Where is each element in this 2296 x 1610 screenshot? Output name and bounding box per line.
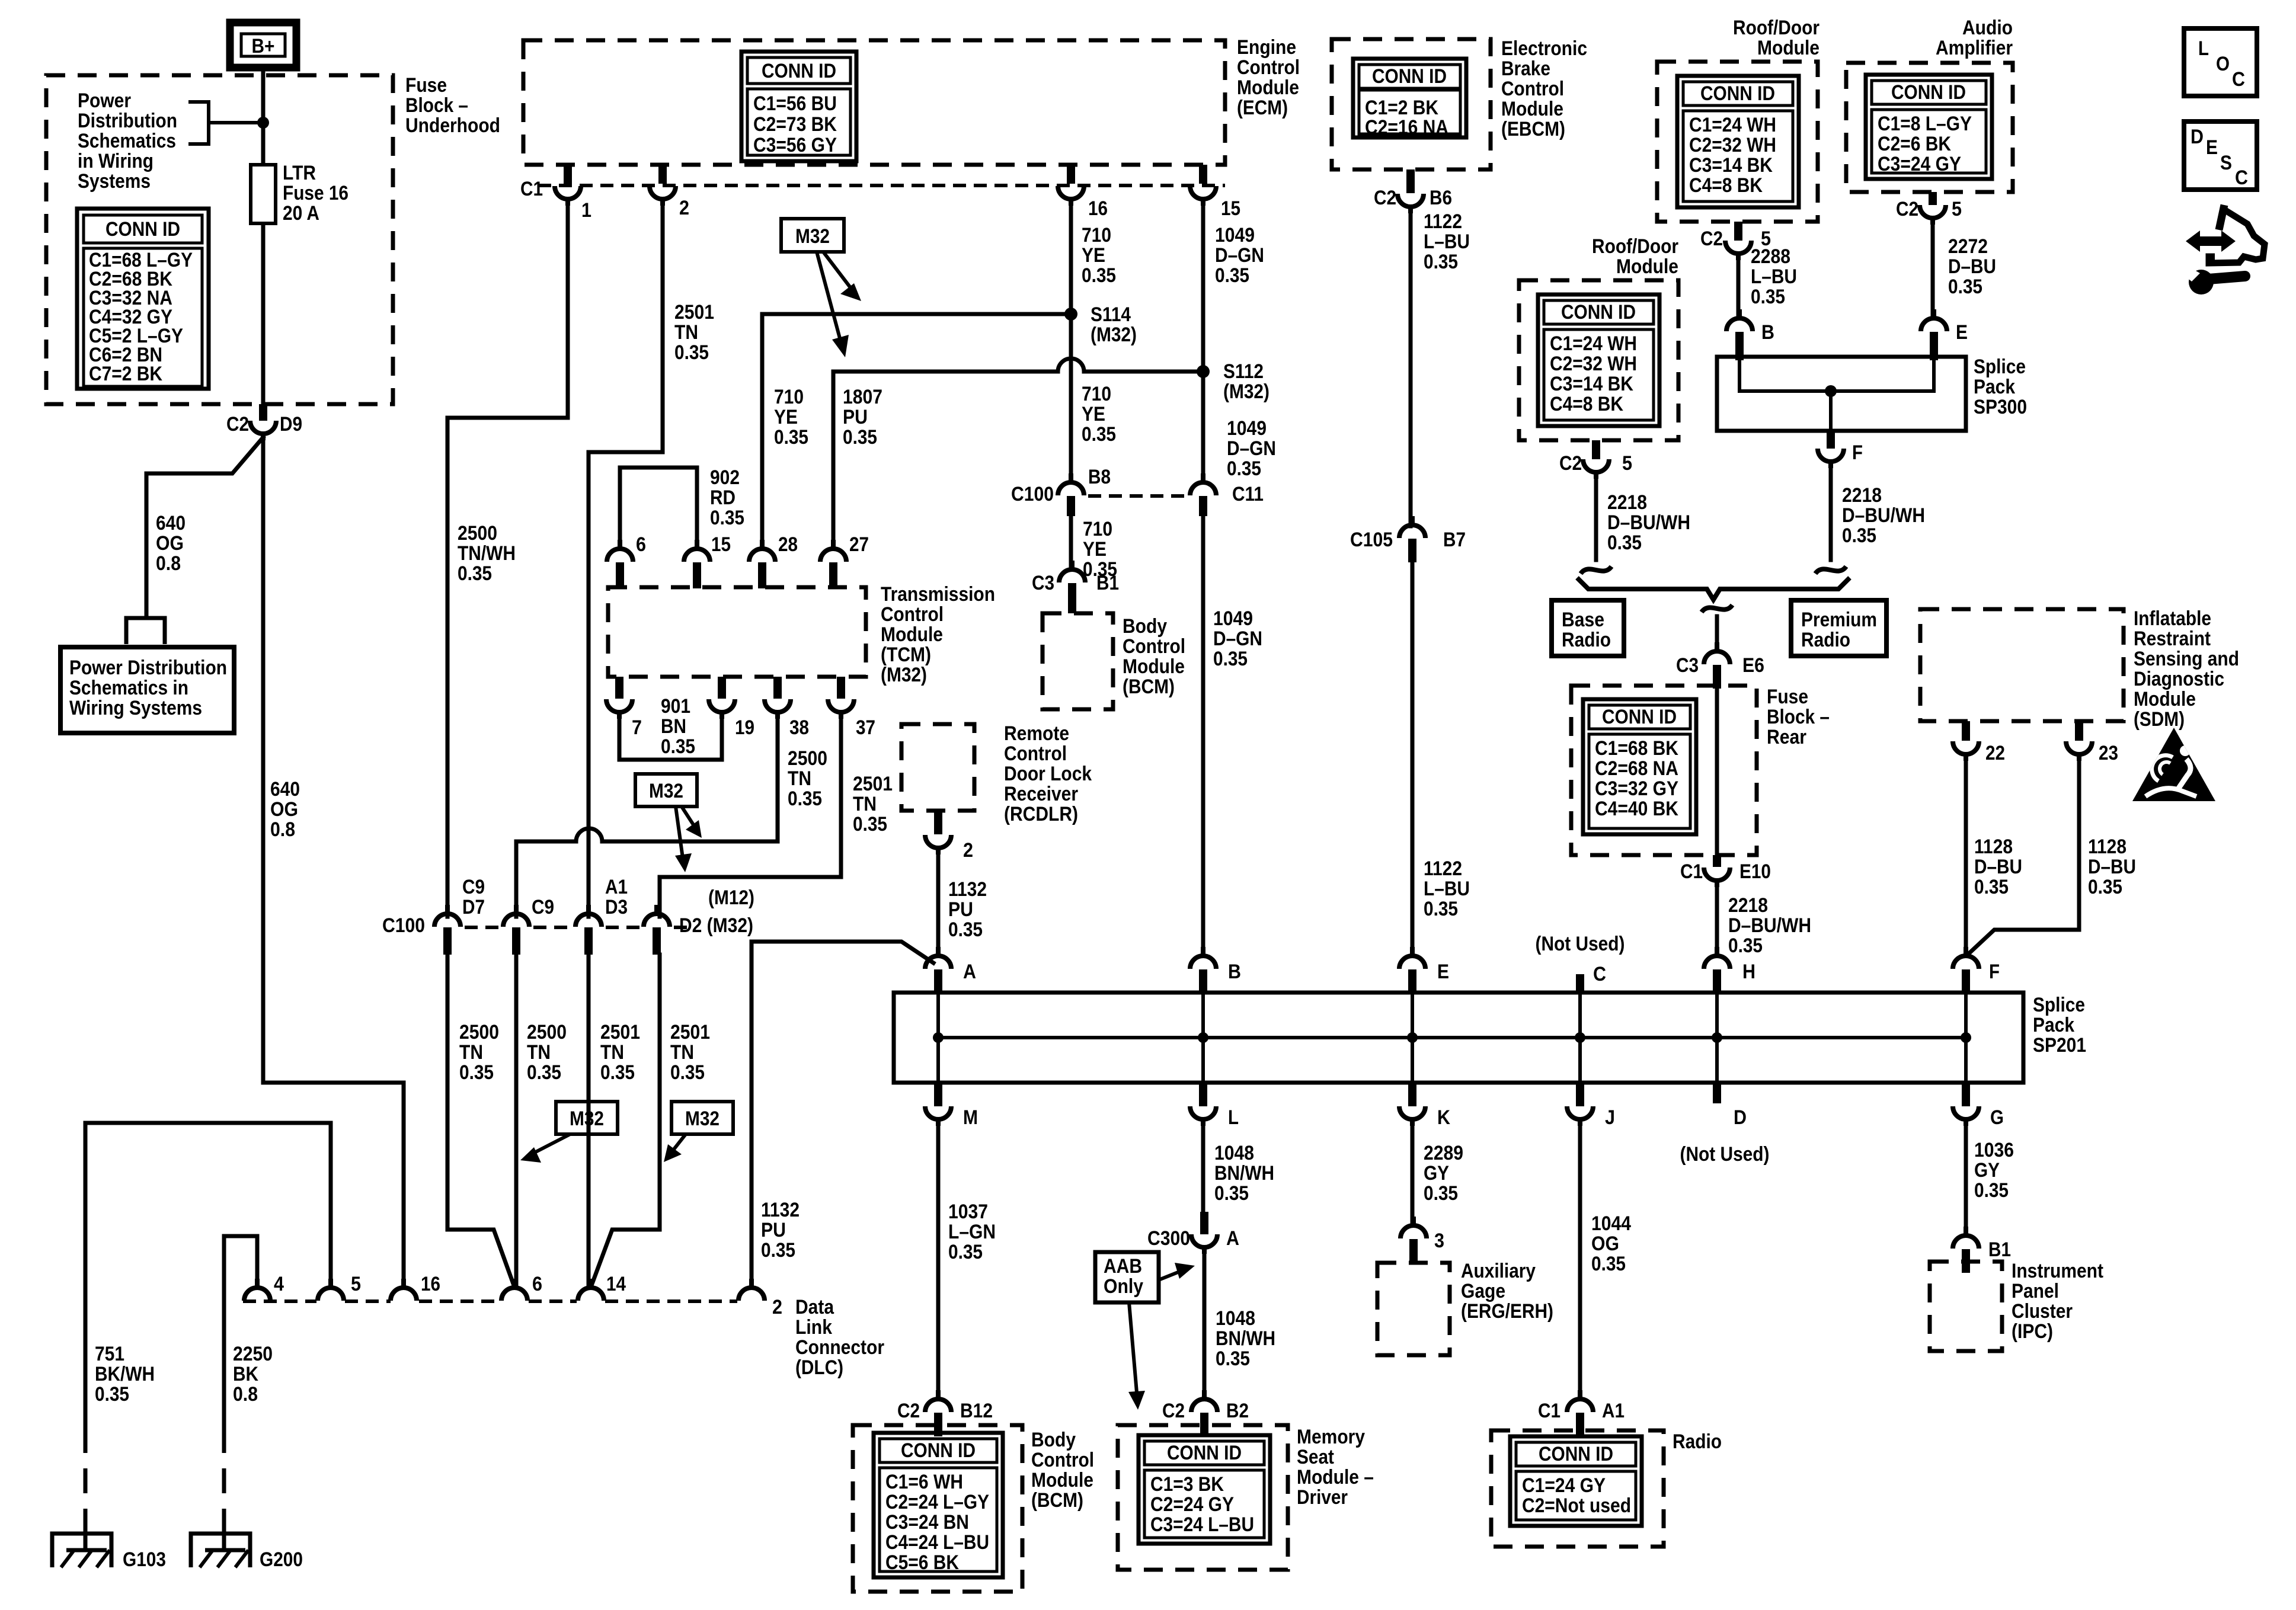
svg-text:D–BU/WH: D–BU/WH — [1607, 511, 1690, 534]
svg-text:TN: TN — [600, 1041, 624, 1064]
EBCM pin C2 B6 — [1406, 169, 1415, 193]
svg-text:C2: C2 — [1162, 1400, 1185, 1422]
svg-text:D–BU/WH: D–BU/WH — [1842, 504, 1925, 527]
svg-text:D3: D3 — [605, 896, 628, 918]
svg-text:Splice: Splice — [1974, 356, 2026, 378]
roof/door lower pin C2 5 — [1592, 440, 1600, 459]
svg-text:M32: M32 — [649, 780, 683, 802]
svg-text:TN/WH: TN/WH — [458, 542, 516, 565]
svg-text:0.35: 0.35 — [458, 562, 492, 585]
svg-text:BN/WH: BN/WH — [1216, 1327, 1275, 1350]
SP201 column H-D — [1715, 993, 1719, 1083]
svg-text:Schematics in: Schematics in — [69, 677, 188, 699]
svg-text:BN/WH: BN/WH — [1214, 1162, 1274, 1185]
wire 2218 D-BU/WH E10 to SP201 H — [1715, 885, 1719, 955]
svg-text:BK: BK — [233, 1363, 258, 1385]
svg-text:M32: M32 — [795, 225, 830, 248]
SP300 internal bus — [1739, 360, 1934, 431]
svg-text:2250: 2250 — [233, 1343, 273, 1365]
svg-text:(M32): (M32) — [881, 664, 927, 686]
svg-text:CONN ID: CONN ID — [1891, 81, 1966, 104]
svg-text:TN: TN — [674, 321, 698, 344]
svg-text:Pack: Pack — [2033, 1014, 2074, 1036]
svg-text:C2=68 NA: C2=68 NA — [1595, 757, 1678, 780]
svg-text:TN: TN — [670, 1041, 694, 1064]
svg-text:C1=56 BU: C1=56 BU — [753, 92, 837, 115]
svg-text:38: 38 — [789, 716, 809, 739]
svg-text:C1=24 GY: C1=24 GY — [1522, 1474, 1606, 1497]
svg-text:2218: 2218 — [1607, 491, 1647, 514]
M32 arrow to 2501 wire — [675, 806, 692, 872]
svg-text:C1: C1 — [520, 178, 543, 200]
DLC pin 4 — [244, 1279, 270, 1301]
wire 901 BN TCM 7 to TCM 19 — [619, 717, 722, 760]
svg-text:K: K — [1437, 1106, 1450, 1129]
svg-text:C3=24 L–BU: C3=24 L–BU — [1150, 1513, 1254, 1536]
svg-text:Control: Control — [1004, 742, 1067, 765]
svg-text:0.35: 0.35 — [1424, 251, 1458, 273]
audio amp pin C2 5 — [1929, 192, 1937, 205]
svg-text:M: M — [963, 1106, 978, 1129]
connector C100 D7 — [434, 905, 461, 927]
svg-text:C7=2 BK: C7=2 BK — [89, 363, 162, 385]
wire 2501 TN TCM 37 to C100 D2 — [660, 717, 841, 917]
wire 1049 D-GN C11 to SP201 B — [1201, 516, 1205, 955]
svg-text:Module: Module — [1123, 655, 1185, 678]
svg-text:0.35: 0.35 — [674, 341, 709, 364]
svg-text:0.35: 0.35 — [853, 813, 887, 836]
CONN ID table (radio) — [1510, 1436, 1642, 1526]
svg-text:1807: 1807 — [843, 386, 882, 408]
svg-text:28: 28 — [778, 533, 798, 556]
svg-text:Memory: Memory — [1297, 1426, 1365, 1448]
svg-text:C2: C2 — [1559, 452, 1582, 475]
svg-text:Module: Module — [1501, 98, 1563, 120]
svg-text:C100: C100 — [382, 914, 425, 937]
svg-text:15: 15 — [1221, 197, 1240, 220]
svg-text:16: 16 — [421, 1273, 440, 1295]
wire 1049 D-GN S112 to C11 — [1201, 372, 1205, 482]
svg-text:1036: 1036 — [1974, 1139, 2014, 1161]
svg-text:Panel: Panel — [2012, 1280, 2059, 1302]
svg-text:Splice: Splice — [2033, 994, 2085, 1016]
wire 640 OG to DLC 16 — [263, 437, 404, 1287]
svg-text:Receiver: Receiver — [1004, 783, 1078, 805]
svg-text:(SDM): (SDM) — [2134, 708, 2185, 731]
svg-text:G: G — [1990, 1106, 2004, 1129]
M32 arrow to S114 wire — [823, 252, 861, 301]
svg-text:0.35: 0.35 — [788, 788, 822, 810]
svg-text:5: 5 — [1952, 198, 1962, 220]
svg-text:1132: 1132 — [948, 878, 987, 901]
svg-text:CONN ID: CONN ID — [762, 60, 836, 82]
SDM pin 22 — [1962, 721, 1970, 741]
svg-text:A: A — [1226, 1227, 1239, 1250]
connector C2 B12 — [925, 1390, 951, 1412]
wire 1049 D-GN ECM 15 to S112 — [1201, 204, 1205, 372]
TCM pin 27 — [820, 540, 846, 562]
RCDLR pin 2 — [934, 811, 942, 834]
svg-text:0.35: 0.35 — [1216, 1347, 1250, 1370]
ground G103 — [52, 1534, 111, 1567]
svg-text:S: S — [2220, 152, 2232, 174]
svg-text:Body: Body — [1123, 615, 1167, 638]
connector C3 B1 — [1059, 561, 1085, 582]
svg-text:2501: 2501 — [670, 1021, 710, 1044]
wire 2501 TN C100 D3 to DLC 14 — [587, 955, 591, 1287]
ECM pin 2 — [658, 165, 667, 184]
svg-text:0.35: 0.35 — [661, 735, 695, 758]
svg-text:0.35: 0.35 — [948, 918, 983, 941]
svg-text:Block –: Block – — [1767, 706, 1830, 728]
svg-text:C1=24 WH: C1=24 WH — [1550, 332, 1637, 355]
svg-text:2272: 2272 — [1948, 235, 1988, 258]
svg-text:2218: 2218 — [1728, 894, 1768, 917]
SP201 pin B — [1190, 947, 1216, 969]
svg-text:Data: Data — [795, 1296, 834, 1318]
svg-text:640: 640 — [156, 512, 186, 534]
svg-text:C1=3 BK: C1=3 BK — [1150, 1473, 1224, 1496]
wire 2500 TN/WH ECM 1 to C100 D7 — [447, 204, 568, 917]
svg-text:2: 2 — [963, 839, 973, 862]
svg-text:C105: C105 — [1350, 529, 1393, 551]
svg-text:1044: 1044 — [1591, 1212, 1631, 1235]
svg-text:CONN ID: CONN ID — [1539, 1443, 1613, 1465]
wire 710 YE S114 to C100 B8 — [1069, 314, 1073, 482]
svg-text:E: E — [1437, 961, 1449, 983]
svg-text:1049: 1049 — [1227, 417, 1267, 440]
svg-text:0.35: 0.35 — [774, 426, 808, 449]
wire 1128 D-BU SDM 23 to SP201 F — [1968, 759, 2079, 954]
DLC pin 16 — [391, 1279, 417, 1301]
svg-text:in Wiring: in Wiring — [78, 150, 154, 172]
M32 arrow to 2501 wire — [664, 1134, 686, 1162]
svg-text:PU: PU — [761, 1219, 786, 1241]
svg-text:G200: G200 — [260, 1548, 303, 1571]
svg-text:2501: 2501 — [853, 773, 893, 795]
svg-text:(BCM): (BCM) — [1123, 676, 1175, 698]
svg-text:CONN ID: CONN ID — [1372, 65, 1447, 88]
svg-text:BN: BN — [661, 715, 686, 738]
DLC pin 2 — [738, 1279, 765, 1301]
svg-text:7: 7 — [632, 716, 642, 739]
svg-text:0.35: 0.35 — [670, 1061, 705, 1084]
svg-text:TN: TN — [853, 793, 877, 815]
svg-text:B2: B2 — [1226, 1400, 1249, 1422]
M32 callout (left DLC) — [556, 1102, 618, 1134]
svg-text:CONN ID: CONN ID — [1602, 706, 1677, 728]
svg-text:B1: B1 — [1096, 572, 1119, 594]
svg-text:C4=24 L–BU: C4=24 L–BU — [885, 1531, 989, 1554]
svg-text:CONN ID: CONN ID — [105, 218, 180, 241]
svg-text:Brake: Brake — [1501, 57, 1550, 80]
SP300 pin F — [1827, 431, 1835, 449]
svg-text:YE: YE — [1082, 403, 1105, 425]
splice pack SP201 box — [894, 993, 2023, 1083]
wire 1048 BN/WH L to C300 A — [1201, 1124, 1205, 1212]
svg-text:PU: PU — [843, 406, 868, 428]
M32 arrow to 2500 wire — [520, 1134, 570, 1163]
CONN ID table (fuse block underhood) — [77, 209, 209, 389]
SP201 pin M — [934, 1083, 942, 1106]
svg-text:CONN ID: CONN ID — [1561, 301, 1636, 324]
svg-text:L: L — [2198, 37, 2209, 60]
svg-text:Engine: Engine — [1237, 36, 1296, 59]
airbag caution icon — [2132, 728, 2215, 801]
connector C2 B2 — [1191, 1390, 1217, 1412]
splice S112 — [1197, 365, 1210, 378]
svg-text:B8: B8 — [1088, 466, 1111, 488]
svg-text:H: H — [1742, 961, 1755, 983]
svg-text:710: 710 — [1083, 518, 1112, 540]
inflatable restraint SDM dashed box — [1920, 609, 2124, 721]
svg-text:Premium: Premium — [1801, 609, 1877, 631]
wire through fuse block rear E6 to E10 — [1715, 689, 1719, 855]
svg-text:S114: S114 — [1091, 303, 1131, 326]
svg-text:Remote: Remote — [1004, 722, 1069, 745]
off-page bracket — [126, 618, 165, 644]
svg-text:(ECM): (ECM) — [1237, 97, 1288, 119]
wire 1122 L-BU C105 to SP201 E — [1411, 562, 1415, 955]
svg-text:Power: Power — [78, 89, 131, 112]
audio amplifier dashed box — [1846, 63, 2013, 192]
svg-text:C11: C11 — [1232, 483, 1264, 505]
svg-text:5: 5 — [1622, 452, 1632, 475]
svg-text:1132: 1132 — [761, 1199, 800, 1221]
svg-text:F: F — [1852, 441, 1863, 464]
svg-text:YE: YE — [774, 406, 798, 428]
svg-text:0.35: 0.35 — [527, 1061, 561, 1084]
svg-text:C2=24 L–GY: C2=24 L–GY — [885, 1491, 989, 1513]
CONN ID table (audio amplifier) — [1866, 75, 1992, 179]
svg-text:Transmission: Transmission — [881, 583, 995, 606]
wire 710 YE B8 to BCM B1 — [1069, 516, 1073, 569]
svg-text:BK/WH: BK/WH — [95, 1363, 155, 1385]
svg-text:GY: GY — [1424, 1162, 1449, 1185]
svg-text:Radio: Radio — [1562, 629, 1611, 651]
svg-text:OG: OG — [270, 798, 298, 821]
svg-text:OG: OG — [156, 532, 184, 555]
svg-text:(BCM): (BCM) — [1031, 1489, 1083, 1512]
svg-text:C2=73 BK: C2=73 BK — [753, 113, 837, 136]
svg-text:0.35: 0.35 — [948, 1241, 983, 1263]
svg-text:B1: B1 — [1988, 1238, 2011, 1261]
wire 1132 PU RCDLR 2 to SP201 A — [936, 853, 941, 955]
connector C2 D9 stub — [259, 404, 267, 421]
svg-text:2288: 2288 — [1751, 245, 1790, 268]
svg-text:B6: B6 — [1430, 187, 1452, 209]
svg-text:0.35: 0.35 — [95, 1383, 129, 1406]
wire 2288 L-BU to SP300 B — [1737, 258, 1741, 318]
svg-text:C2: C2 — [1700, 228, 1723, 250]
svg-text:D9: D9 — [280, 413, 302, 436]
splice S114 — [1064, 308, 1077, 321]
ECM connector face line C1 — [538, 184, 1225, 187]
wire 751 dashed segment — [84, 1428, 88, 1517]
svg-text:1122: 1122 — [1424, 857, 1462, 880]
CONN ID table (roof/door lower) — [1538, 295, 1659, 426]
svg-text:Module: Module — [1237, 76, 1299, 99]
svg-text:1049: 1049 — [1213, 607, 1253, 630]
svg-text:SP300: SP300 — [1974, 396, 2027, 418]
svg-text:Gage: Gage — [1461, 1280, 1505, 1302]
wire 2501 TN C100 D2 to DLC 14 — [591, 955, 660, 1287]
svg-text:15: 15 — [711, 533, 731, 556]
svg-text:Amplifier: Amplifier — [1936, 37, 2013, 59]
svg-text:Inflatable: Inflatable — [2134, 607, 2211, 630]
svg-text:Control: Control — [1237, 56, 1300, 79]
svg-text:B7: B7 — [1443, 529, 1466, 551]
SP201 pin H — [1704, 947, 1730, 969]
wire 2289 GY K to aux gage 3 — [1411, 1124, 1415, 1225]
svg-text:C1: C1 — [1680, 860, 1703, 883]
svg-text:0.35: 0.35 — [1227, 457, 1261, 480]
svg-text:22: 22 — [1985, 742, 2005, 764]
svg-text:Fuse: Fuse — [1767, 686, 1808, 708]
svg-text:1122: 1122 — [1424, 210, 1462, 233]
wire 1132 PU DLC 2 to SP201 A — [752, 942, 933, 1287]
DLC pin 5 — [318, 1279, 344, 1301]
DLC pin 6 — [501, 1279, 527, 1301]
svg-text:(RCDLR): (RCDLR) — [1004, 803, 1078, 825]
svg-text:Roof/Door: Roof/Door — [1592, 235, 1678, 258]
svg-text:F: F — [1989, 961, 2000, 983]
svg-text:TN: TN — [459, 1041, 483, 1064]
wire break symbol — [1815, 566, 1846, 574]
svg-text:C2: C2 — [1374, 187, 1396, 209]
wire 2500 TN C100 D7 to DLC 6 — [447, 955, 514, 1287]
svg-text:0.35: 0.35 — [1215, 264, 1249, 287]
svg-text:2289: 2289 — [1424, 1142, 1463, 1164]
svg-text:C: C — [2235, 167, 2248, 189]
M32 callout (right DLC) — [671, 1102, 733, 1134]
SP201 column F-G — [1964, 993, 1968, 1083]
svg-text:2500: 2500 — [788, 747, 827, 770]
svg-text:M32: M32 — [685, 1108, 720, 1130]
svg-text:D–BU/WH: D–BU/WH — [1728, 914, 1811, 937]
svg-text:C2=Not used: C2=Not used — [1522, 1494, 1631, 1517]
svg-text:E: E — [2206, 136, 2218, 159]
svg-text:2500: 2500 — [458, 522, 497, 545]
svg-text:D–GN: D–GN — [1227, 437, 1276, 460]
roof/door upper pin C2 5 — [1734, 222, 1742, 241]
wire break symbol below brace — [1702, 605, 1732, 612]
wire break symbol — [1581, 566, 1611, 574]
SP201 pin G — [1962, 1083, 1970, 1106]
svg-text:Instrument: Instrument — [2012, 1260, 2103, 1282]
wire 710 YE S114 branch to TCM 28 — [762, 314, 1071, 540]
svg-text:0.35: 0.35 — [843, 426, 877, 449]
CONN ID table (EBCM) — [1353, 59, 1466, 139]
svg-text:(ERG/ERH): (ERG/ERH) — [1461, 1300, 1553, 1323]
dashed connector line B8 to C11 — [1088, 494, 1185, 498]
SP201 pin A — [925, 947, 951, 969]
TCM pin 28 — [749, 540, 775, 562]
svg-text:SP201: SP201 — [2033, 1034, 2086, 1057]
body control module BCM dashed box — [1043, 613, 1113, 709]
svg-text:0.35: 0.35 — [600, 1061, 635, 1084]
wire 751 BK/WH DLC 5 to G103 — [85, 1123, 331, 1428]
connector C1 A1 — [1567, 1390, 1593, 1412]
wire 2272 D-BU to SP300 E — [1931, 223, 1935, 318]
svg-text:1048: 1048 — [1214, 1142, 1254, 1164]
svg-text:3: 3 — [1434, 1230, 1444, 1252]
TCM pin 19 — [718, 677, 726, 699]
SP201 bus line — [938, 1036, 1966, 1039]
svg-text:C1=8 L–GY: C1=8 L–GY — [1878, 113, 1972, 135]
svg-text:710: 710 — [1082, 383, 1111, 405]
svg-text:1048: 1048 — [1216, 1307, 1255, 1330]
svg-text:L: L — [1228, 1106, 1239, 1129]
svg-text:Radio: Radio — [1801, 629, 1850, 651]
roof/door module lower dashed box — [1519, 280, 1678, 440]
svg-text:C2: C2 — [1896, 198, 1918, 220]
svg-text:C4=8 BK: C4=8 BK — [1689, 174, 1763, 197]
M32 arrow to 2500 wire — [682, 806, 702, 838]
svg-text:C4=40 BK: C4=40 BK — [1595, 798, 1678, 820]
svg-text:1128: 1128 — [2088, 836, 2126, 858]
M32 callout (TCM) — [635, 774, 697, 806]
battery feed B+ symbol — [230, 23, 296, 68]
svg-text:1128: 1128 — [1974, 836, 2013, 858]
TCM pin 6 — [607, 540, 633, 562]
svg-text:C2=32 WH: C2=32 WH — [1689, 134, 1776, 156]
CONN ID table (memory seat module) — [1139, 1435, 1270, 1544]
wire 1037 L-GN M to BCM B12 — [936, 1124, 941, 1398]
svg-text:C2=6 BK: C2=6 BK — [1878, 133, 1951, 155]
fuse LTR Fuse 16 20 A — [251, 165, 276, 223]
svg-text:C3=24 BN: C3=24 BN — [885, 1511, 969, 1534]
wire 1128 D-BU SDM 22 to SP201 F — [1964, 759, 1968, 955]
svg-text:2500: 2500 — [527, 1021, 567, 1044]
svg-text:OG: OG — [1591, 1233, 1619, 1255]
SP201 pin D stub not used — [1713, 1083, 1721, 1103]
svg-text:C1=68 BK: C1=68 BK — [1595, 737, 1678, 760]
diagnostic icon double arrow — [2186, 231, 2236, 252]
svg-text:2: 2 — [772, 1296, 782, 1318]
svg-text:2: 2 — [679, 197, 689, 219]
svg-text:Module: Module — [881, 623, 943, 646]
svg-text:D–BU: D–BU — [1974, 856, 2022, 878]
DLC connector dashed line — [243, 1299, 737, 1303]
CONN ID table (ECM) — [741, 52, 856, 161]
fuse block rear pin C1 E10 — [1713, 855, 1721, 867]
svg-text:0.35: 0.35 — [2088, 876, 2122, 898]
svg-text:CONN ID: CONN ID — [1700, 82, 1775, 105]
svg-text:(Not Used): (Not Used) — [1536, 933, 1625, 955]
svg-text:D: D — [1734, 1106, 1747, 1129]
TCM pin 38 — [773, 677, 782, 699]
connector C3 E6 — [1704, 642, 1730, 664]
wire 1807 PU S112 branch to TCM 27 with hop — [833, 359, 1203, 540]
svg-text:B: B — [1228, 961, 1241, 983]
svg-text:L–GN: L–GN — [948, 1221, 996, 1243]
connector C100 B8 — [1058, 473, 1084, 495]
svg-text:0.35: 0.35 — [1842, 524, 1876, 547]
svg-text:0.35: 0.35 — [710, 507, 744, 529]
svg-text:0.35: 0.35 — [459, 1061, 494, 1084]
AAB Only callout box — [1095, 1252, 1159, 1302]
svg-text:S112: S112 — [1223, 360, 1264, 383]
svg-text:C: C — [2232, 68, 2245, 91]
svg-text:L–BU: L–BU — [1751, 265, 1797, 288]
svg-text:Seat: Seat — [1297, 1446, 1334, 1468]
svg-text:0.35: 0.35 — [1082, 423, 1116, 446]
svg-text:0.35: 0.35 — [1591, 1253, 1626, 1275]
SDM pin 23 — [2075, 721, 2083, 741]
AAB arrow to C2 B2 — [1128, 1302, 1145, 1410]
svg-text:A1: A1 — [1602, 1400, 1625, 1422]
